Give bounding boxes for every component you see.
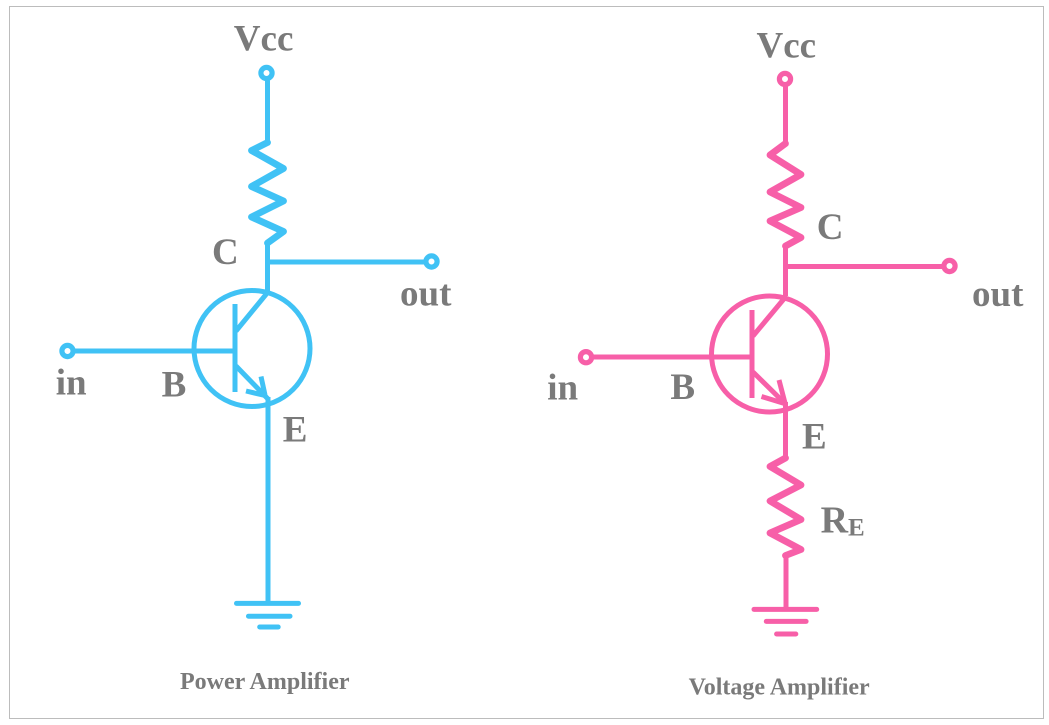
transistor Q2 (right, NPN) [712, 296, 828, 412]
svg-text:B: B [670, 367, 695, 408]
wire resistor RE to ground (right) [784, 555, 789, 610]
transistor Q1 (left, NPN) [194, 291, 310, 407]
svg-text:Power Amplifier: Power Amplifier [180, 669, 350, 695]
wire collector node to out terminal (right) [783, 264, 944, 269]
svg-text:E: E [802, 416, 827, 457]
wire emitter to ground (left) [266, 397, 271, 603]
resistor RE (right emitter resistor) [770, 458, 801, 556]
terminal in (right) [580, 352, 591, 363]
svg-text:B: B [162, 364, 187, 405]
svg-text:C: C [817, 207, 844, 248]
wire Vcc to resistor (right) [783, 87, 788, 145]
terminal out (right) [944, 260, 955, 271]
svg-text:Vcc: Vcc [757, 26, 817, 67]
resistor RC (right collector resistor) [770, 144, 801, 247]
terminal in (left) [62, 345, 73, 356]
terminal out (left) [426, 256, 437, 267]
svg-text:out: out [972, 274, 1024, 315]
svg-text:C: C [212, 232, 239, 273]
svg-text:out: out [400, 274, 452, 315]
wire resistor to collector node (left) [265, 242, 270, 293]
resistor RC (left collector resistor) [252, 143, 284, 244]
svg-text:Voltage Amplifier: Voltage Amplifier [689, 675, 870, 701]
wire in terminal to base (left) [74, 349, 235, 354]
svg-text:E: E [283, 409, 308, 450]
svg-text:in: in [56, 362, 87, 403]
wire collector node to out terminal (left) [265, 260, 426, 265]
wire emitter to resistor RE (right) [783, 402, 788, 459]
wire resistor to collector node (right) [783, 245, 788, 296]
ground (left) [237, 603, 299, 627]
ground (right) [754, 609, 817, 634]
wire in terminal to base (right) [593, 355, 753, 360]
wire Vcc to resistor (left) [265, 81, 270, 144]
terminal Vcc (right) [779, 73, 790, 84]
svg-text:in: in [547, 368, 578, 409]
terminal Vcc (left) [261, 67, 272, 78]
svg-text:Vcc: Vcc [234, 18, 294, 59]
